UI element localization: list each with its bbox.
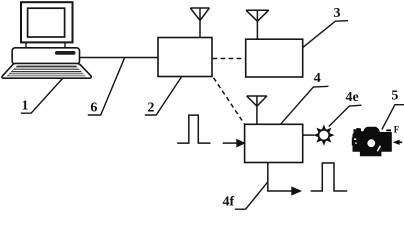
system unit [12, 48, 79, 65]
output arrow [291, 186, 302, 195]
box 3 [246, 39, 303, 77]
box 2 [158, 38, 212, 77]
svg-text:4: 4 [314, 71, 321, 86]
keyboard key rows [7, 66, 86, 77]
monitor neck right [64, 42, 66, 48]
computer monitor screen [28, 8, 65, 37]
box 4 [245, 124, 303, 162]
monitor neck left [25, 42, 27, 48]
svg-text:6: 6 [90, 100, 97, 115]
leader line 5 [382, 105, 404, 130]
output pulse waveform [311, 163, 348, 191]
dashed link box2 to box3 [213, 58, 246, 60]
svg-text:4f: 4f [222, 195, 234, 210]
input arrow into box 4 [223, 142, 238, 144]
svg-text:F: F [394, 125, 400, 135]
svg-text:5: 5 [391, 89, 398, 104]
leader line 2 [145, 77, 182, 116]
input pulse waveform [177, 115, 210, 143]
leader line 4 [281, 86, 329, 124]
disk slot [55, 51, 76, 55]
leader line 3 [303, 21, 348, 48]
svg-text:4e: 4e [345, 90, 358, 105]
wire 6: computer to box 2 [80, 57, 159, 59]
svg-text:2: 2 [147, 100, 154, 115]
output wire down from box 4 [268, 163, 292, 192]
computer monitor outer [21, 2, 73, 42]
leader line 4f [235, 182, 268, 209]
leader line 6 [88, 57, 125, 115]
svg-text:3: 3 [334, 6, 341, 21]
leader line 1 [21, 79, 63, 114]
antenna of box 4 [247, 96, 267, 124]
leader line 4e [329, 105, 362, 126]
antenna of box 3 [246, 10, 269, 39]
wire box4 to flash [303, 134, 315, 136]
camera 5 [352, 127, 402, 156]
svg-text:1: 1 [22, 99, 29, 114]
flash (sun) symbol 4e [313, 125, 334, 146]
antenna of box 2 [190, 8, 209, 38]
keyboard outline [2, 63, 91, 78]
dashed link box2 to box4 [214, 78, 245, 124]
